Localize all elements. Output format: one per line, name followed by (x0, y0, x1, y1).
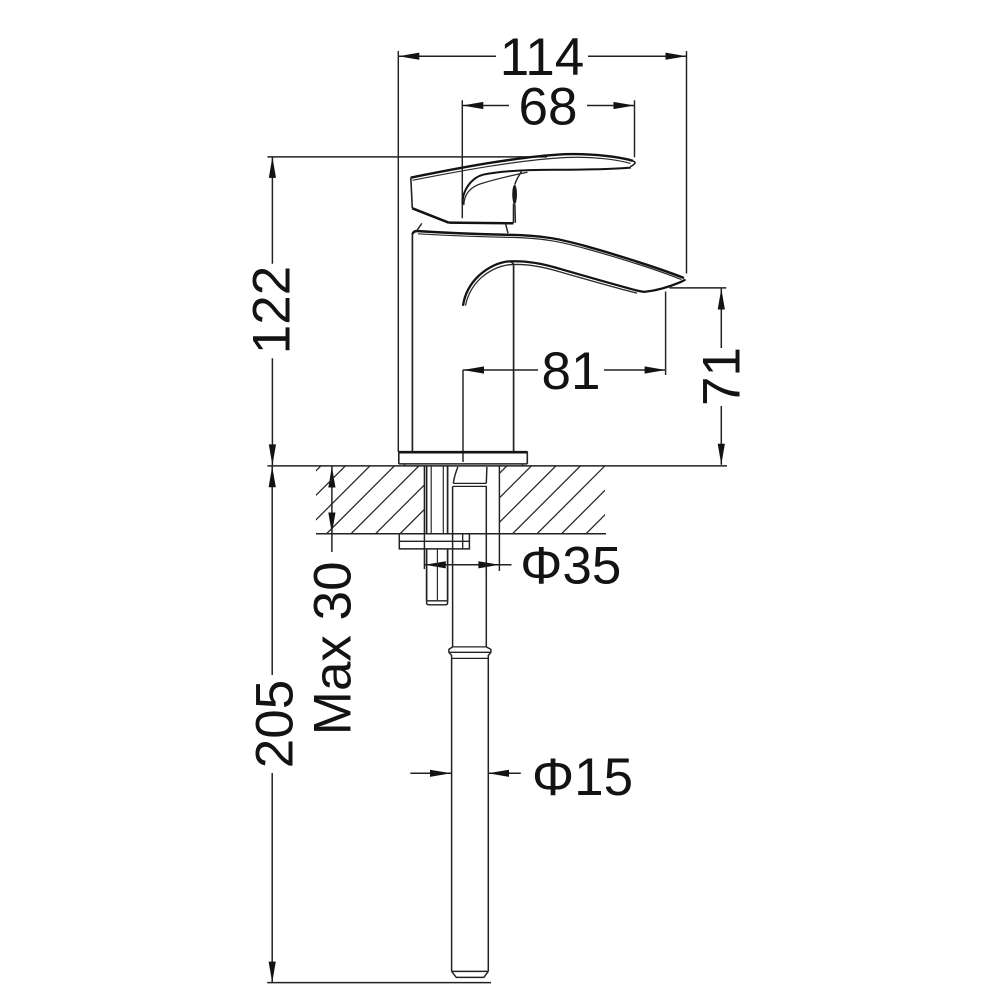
handle neck line (515, 172, 522, 185)
handle lever top inner line (413, 157, 631, 180)
shank collar lines (453, 483, 487, 486)
shank tube edges (453, 486, 487, 647)
spout top inner line (418, 234, 682, 280)
dimension 71 arrows (718, 289, 725, 465)
dimension phi15 arrows (430, 770, 509, 777)
handle lever top edge (411, 154, 633, 178)
dimension 205 arrows (269, 466, 276, 982)
handle neck lower line (514, 204, 517, 223)
mounting stud inner lines (431, 466, 443, 601)
body right edge (509, 261, 514, 451)
shank tapered top (453, 467, 487, 484)
dimension phi15 line (410, 772, 520, 774)
handle facet curve (464, 172, 528, 205)
dimension 205 bottom extension line (267, 982, 491, 984)
handle neck eye (512, 185, 517, 204)
dimension phi35 extension lines (hole edges) (424, 466, 499, 571)
dimension 205 line (271, 466, 273, 982)
dimension 68 line (462, 105, 634, 107)
countertop underside line (316, 533, 606, 535)
dimension phi35 arrows (425, 561, 500, 568)
mounting stud bottom cap (427, 601, 448, 605)
base plate lip (405, 464, 523, 466)
svg-text:Φ15: Φ15 (532, 748, 633, 807)
dimension Max 30 line and arrows (331, 467, 333, 553)
supply pipe edges (452, 658, 489, 971)
handle lever nose (630, 161, 635, 167)
body dome rim and spout top edge (412, 231, 684, 278)
dimension 122 line (271, 157, 273, 466)
base plate sides (399, 451, 528, 464)
svg-text:Max 30: Max 30 (303, 561, 362, 735)
dimension 114 line (398, 55, 686, 57)
dimension phi35 line (425, 564, 512, 566)
spout lower tip edge (645, 279, 686, 292)
svg-text:205: 205 (246, 680, 305, 768)
spout underside inner line (466, 264, 638, 305)
dimension 71 line (720, 289, 722, 465)
body left edge (411, 233, 413, 451)
countertop hatching (228, 466, 654, 534)
dimension 81 extension lines (463, 292, 666, 463)
svg-text:71: 71 (692, 347, 751, 406)
dimension 81 line (463, 369, 666, 371)
svg-text:Φ35: Φ35 (520, 537, 621, 596)
horseshoe washer (399, 534, 469, 549)
handle wedge left edge (411, 178, 413, 209)
dome right connector (506, 223, 509, 233)
dimension 81 arrows (463, 366, 666, 373)
dimension 114 extension lines (398, 51, 686, 452)
compression fitting (449, 647, 491, 659)
handle wedge bottom-left diagonal (412, 208, 448, 222)
dimension 71 top extension line (670, 287, 727, 289)
svg-text:122: 122 (243, 266, 302, 354)
dimension 68 arrows (462, 102, 634, 109)
dimension 68 extension lines (462, 100, 634, 218)
handle wedge right edge (512, 204, 514, 224)
handle lever underside (463, 168, 631, 205)
supply pipe bottom cap (452, 971, 489, 977)
handle wedge bottom edge (449, 221, 514, 224)
dimension 122 arrows (269, 157, 276, 466)
dome left connector (417, 223, 422, 231)
svg-text:81: 81 (542, 342, 601, 401)
svg-text:68: 68 (519, 78, 578, 137)
countertop surface line (267, 465, 727, 467)
dimension 122 top extension line (267, 156, 547, 158)
dimension 114 arrows (398, 53, 686, 60)
spout underside crease (463, 261, 645, 306)
base plate top edge (399, 451, 528, 454)
mounting stud edges (427, 466, 448, 601)
base plate bottom edge (399, 463, 528, 465)
